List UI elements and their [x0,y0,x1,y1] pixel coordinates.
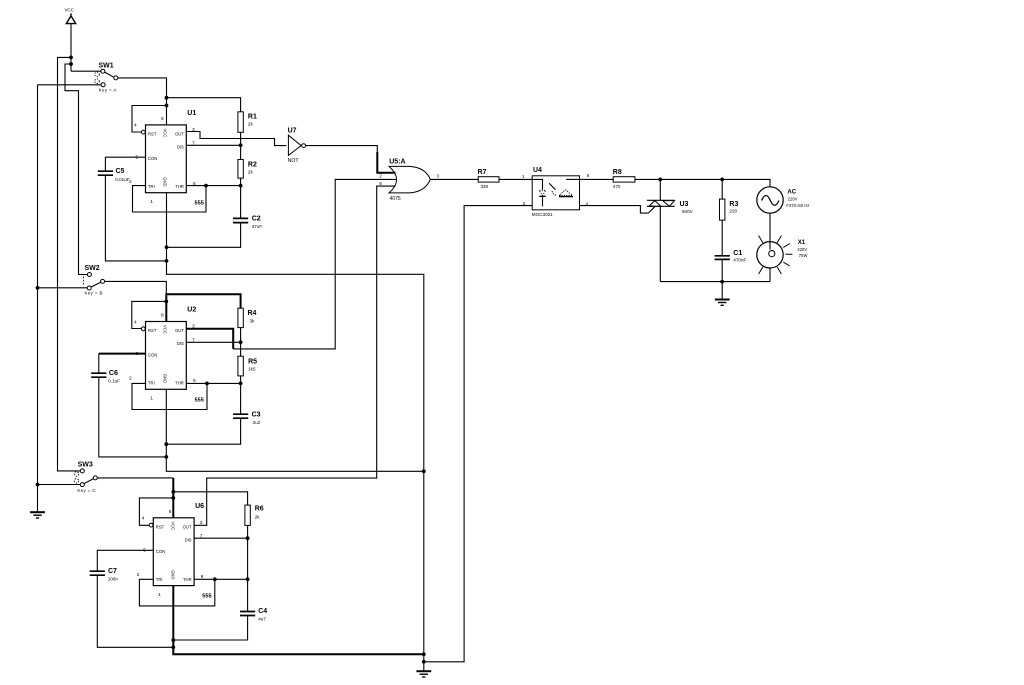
node C6 gnd junction [164,455,168,459]
label SW1 [99,62,114,69]
label SW2 [85,265,100,272]
svg-text:6: 6 [193,181,196,187]
svg-text:OUT: OUT [175,328,184,333]
node SW2 lower feed junction [36,286,40,290]
label U5:A [389,159,405,166]
svg-text:RST: RST [156,524,165,529]
node U6 TRI-THR junction [213,577,217,581]
node C2 gnd junction [165,245,169,249]
value AC 220V [788,196,798,201]
wire U2 VCC stub (bold) [165,293,167,321]
wire U2 DIS [186,341,240,343]
svg-text:U7: U7 [288,127,297,134]
svg-text:CON: CON [156,549,165,554]
svg-text:U4: U4 [533,167,542,174]
svg-text:5: 5 [143,547,146,553]
ground (main) [416,671,431,677]
ground (snubber) [715,282,730,306]
value Key=Space for SW2 [85,290,103,295]
svg-text:555: 555 [195,397,204,403]
svg-text:DIS: DIS [177,145,184,150]
value R6 2k [255,515,261,520]
svg-text:4075: 4075 [390,196,401,202]
pin 3 of U5A output [437,174,440,179]
wire ground rail (lower throws) [38,85,102,512]
node main ground junction 1 [422,652,426,656]
svg-text:U3: U3 [680,201,689,208]
label SW3 [78,462,93,469]
svg-text:3: 3 [200,520,203,526]
wire U4 pin2 to ground bus [424,206,532,662]
power VCC symbol [65,8,76,24]
svg-text:555: 555 [202,594,211,600]
svg-text:U5:A: U5:A [389,159,405,166]
node C3 gnd junction [164,442,168,446]
svg-text:U6: U6 [195,503,204,510]
svg-text:THR: THR [175,184,184,189]
wire VCC stem [70,24,72,72]
svg-text:GND: GND [163,374,168,383]
label U1 [187,110,196,117]
svg-text:2k: 2k [248,122,254,127]
node triac MT2 junction [658,178,662,182]
wire ground stub [423,654,425,671]
svg-text:2: 2 [129,179,132,185]
switch SW1 [95,69,118,87]
wire U6 GND (bold) [173,585,423,654]
svg-text:CON: CON [148,353,157,358]
resistor R2 [238,160,243,179]
wire rail to SW2 upper throw [65,64,88,275]
value AC F=50Hz [786,203,809,208]
wire C3 bottom branch [166,419,240,445]
wire U6 TRI loop [139,579,214,606]
label U6 [195,503,204,510]
wire R7 to U4 [499,178,532,180]
wire SW1 common to U1 VCC [118,78,167,125]
detector triac inside U4 [549,179,579,196]
wire C5 bottom to U1 GND [105,176,166,261]
source AC [757,187,783,213]
value C5 0.01uF [115,177,129,182]
svg-text:2k: 2k [248,169,254,174]
svg-text:2: 2 [129,376,132,382]
svg-text:TRI: TRI [156,577,163,582]
value R1 2k [248,122,254,127]
node U6 R6-rail junction [171,490,175,494]
wire lamp bottom [769,268,771,282]
svg-text:OUT: OUT [175,132,184,137]
wire R6 rail [173,492,247,505]
node U2 TRI-THR junction [205,382,209,386]
node U2-gnd to main junction [422,469,426,473]
wire R3 to C1 [721,220,723,255]
op-amp U1 (555 timer box) [129,116,196,205]
svg-text:7: 7 [200,534,203,540]
wire R4-R5-C3 vertical [240,328,242,414]
svg-text:555: 555 [195,201,204,207]
svg-text:U1: U1 [187,110,196,117]
svg-text:3k: 3k [250,318,256,323]
triac U3 [647,179,675,281]
svg-text:8: 8 [161,313,164,319]
svg-text:F370=50 Hz: F370=50 Hz [786,203,809,208]
value C2 47uF [252,224,263,229]
wire C6 top [98,354,100,373]
node U2 RST-loop junction [164,300,168,304]
wire U6 DIS [194,537,248,539]
value 4075 for U5A [390,196,401,202]
value C7 100n [108,576,119,581]
svg-text:VCC: VCC [163,128,168,137]
svg-text:C2: C2 [252,215,261,222]
node C1 ground junction [720,280,724,284]
label U4 [533,167,542,174]
svg-text:Key = C: Key = C [77,488,96,493]
capacitor C6 [91,373,106,377]
svg-text:4: 4 [134,319,137,325]
node SW3 lower feed junction [36,483,40,487]
wire U1 CON to C5 [105,157,145,170]
svg-text:2u2: 2u2 [253,420,261,425]
svg-text:47uF: 47uF [252,224,263,229]
svg-text:C6: C6 [109,370,118,377]
svg-text:2: 2 [137,572,140,578]
label R4 [248,310,257,317]
svg-text:470nF: 470nF [733,257,746,262]
svg-text:0.1uF: 0.1uF [108,378,120,383]
label X1 [798,240,806,246]
resistor R6 [245,505,250,525]
svg-text:RST: RST [148,132,157,137]
svg-text:R5: R5 [248,358,257,365]
node U1 DIS-R1R2 junction [239,143,243,147]
value R7 330 [481,184,489,189]
svg-text:8: 8 [379,181,382,186]
svg-text:GND: GND [171,570,176,579]
svg-text:1: 1 [158,592,161,598]
svg-text:CON: CON [148,156,157,161]
svg-text:TRI: TRI [148,184,155,189]
svg-text:4u7: 4u7 [258,617,266,622]
lamp X1 [757,236,793,274]
wire U4 pin4 to triac gate [580,206,656,214]
svg-text:C3: C3 [252,411,261,418]
svg-text:R1: R1 [248,114,257,121]
wire U1 DIS [186,144,240,146]
svg-text:600V: 600V [682,209,694,214]
pin 8 of U5A [379,181,382,186]
node main ground junction 2 [422,660,426,664]
resistor R8 [613,177,635,182]
node U6 RST-loop junction [171,496,175,500]
wire OR input1 (from U7) [377,152,395,173]
svg-text:R8: R8 [613,169,622,176]
svg-text:220V: 220V [788,196,798,201]
svg-text:2k: 2k [255,515,261,520]
switch SW2 [84,273,105,291]
svg-text:6: 6 [587,173,590,178]
resistor R1 [238,112,243,133]
svg-text:TRI: TRI [148,381,155,386]
svg-text:OUT: OUT [183,524,192,529]
or-gate U5A [389,166,430,193]
svg-text:Key = A: Key = A [99,87,117,92]
label U2 [187,307,196,314]
value MOC3021 for U4 [532,212,553,217]
wire OR output to R7 [430,178,478,180]
wire U2 THR [186,382,240,384]
label R5 [248,358,257,365]
wire C4 bottom branch [173,616,247,640]
svg-text:7: 7 [192,141,195,147]
wire OR input2 (from U2 OUT) [233,179,396,349]
wire SW2 common to U2 VCC rail [105,281,167,294]
capacitor C3 [233,414,248,418]
value R5 1k5 [248,367,256,372]
pin 1 of U4 [522,174,525,179]
svg-text:C1: C1 [733,250,742,257]
svg-text:VCC: VCC [65,8,74,13]
svg-text:3: 3 [192,324,195,330]
value R3 220 [729,208,737,213]
svg-text:AC: AC [787,189,796,195]
value C3 2u2 [253,420,261,425]
wire R1-R2-C2 vertical [240,132,242,217]
wire R6-C4 vertical [247,525,249,611]
wire U2 TRI loop [132,383,207,409]
value 555 for U6 [202,594,211,600]
svg-text:R4: R4 [248,310,257,317]
node U6 DIS junction [246,536,250,540]
node U1 THR-R2 junction [239,184,243,188]
ground (left rail) [30,512,45,518]
value X1 75W [799,253,808,258]
inverter U7 [288,135,305,155]
svg-text:C4: C4 [258,608,267,615]
pin 2 of U5A [379,174,382,179]
wire U1 R1 rail [167,98,241,112]
capacitor C4 [240,612,255,616]
node U2 DIS junction [239,340,243,344]
wire C7 bottom to U6 GND [97,576,173,647]
wire U2 GND net [166,389,424,471]
value Key=A for SW1 [99,87,117,92]
label C3 [252,411,261,418]
node C4 gnd junction [171,638,175,642]
wire lamp bottom bus [660,281,770,283]
svg-text:100n: 100n [108,576,119,581]
node U1 TRI-THR junction [204,184,208,188]
svg-text:SW1: SW1 [99,62,114,69]
svg-text:1: 1 [150,199,153,205]
svg-text:R3: R3 [729,201,738,208]
svg-text:0.01uF: 0.01uF [115,177,129,182]
wire SW1 feed [71,70,101,72]
wire U6 CON to C7 [97,550,153,570]
wire U1 GND net [167,193,424,655]
wire U2 VCC rail (bold) [166,294,240,308]
label R3 [729,201,738,208]
wire R8 to AC top rail [635,179,770,186]
wire U2 CON bold [99,353,146,355]
wire U6 THR [194,578,248,580]
value C1 470nF [733,257,746,262]
resistor R7 [478,177,499,182]
svg-text:SW3: SW3 [78,462,93,469]
value R4 3k [250,318,256,323]
svg-text:THR: THR [175,381,184,386]
resistor R3 [720,199,725,220]
wire SW3 common to U6 VCC [97,477,173,479]
svg-text:GND: GND [163,177,168,186]
value R2 2k [248,169,254,174]
wire U4 pin6 to R8 [580,178,614,180]
svg-text:4: 4 [134,123,137,129]
label C7 [108,568,117,575]
wire OR input3 (from U6 OUT) [194,186,395,525]
svg-text:8: 8 [169,509,172,515]
optocoupler U4 box [532,176,579,210]
svg-text:7: 7 [192,337,195,343]
capacitor C1 [715,256,730,260]
label C1 [733,250,742,257]
node C7 gnd junction [171,645,175,649]
wire U1 RST loop [132,106,167,133]
svg-text:R6: R6 [255,506,264,513]
op-amp U6 (555 timer box) [137,509,204,598]
value NOT for U7 [288,158,300,164]
resistor R5 [238,356,243,376]
label R2 [248,162,257,169]
svg-text:RST: RST [148,328,157,333]
wire R3 top [721,179,723,199]
label R1 [248,114,257,121]
node VCC-railB junction [69,62,73,66]
svg-text:8: 8 [161,116,164,122]
value Key=C for SW3 [77,488,96,493]
svg-text:220: 220 [729,208,737,213]
wire U2 OUT (bold) [186,329,233,349]
capacitor C5 [98,171,113,175]
wire SW2 lower feed [38,287,88,289]
node R3 top junction [720,178,724,182]
label AC [787,189,796,195]
svg-text:R2: R2 [248,162,257,169]
svg-text:SW2: SW2 [85,265,100,272]
svg-text:2: 2 [379,174,382,179]
svg-text:4: 4 [142,516,145,522]
wire C2 bottom branch [167,223,241,247]
node U2 THR-R5 junction [239,382,243,386]
pin 6 of U4 [587,173,590,178]
value C6 0.1uF [108,378,120,383]
svg-text:U2: U2 [187,307,196,314]
wire U1 THR [186,185,240,187]
wire U1 OUT to U7 [186,132,286,146]
svg-text:DIS: DIS [185,537,192,542]
svg-text:MOC3021: MOC3021 [532,212,553,217]
svg-text:330: 330 [481,184,489,189]
svg-text:470: 470 [613,184,621,189]
wire AC to lamp [769,213,771,241]
svg-text:3: 3 [437,174,440,179]
wire U6 RST loop [139,498,173,525]
switch SW3 [74,469,97,487]
svg-text:3: 3 [192,127,195,133]
wire U1 TRI loop [133,186,207,212]
value X1 220V [797,247,807,252]
label C6 [109,370,118,377]
node VCC-railA junction [69,56,73,60]
svg-text:NOT: NOT [288,158,300,164]
wire SW3 lower feed [38,484,81,486]
node C5 gnd junction [165,259,169,263]
svg-text:X1: X1 [798,240,806,246]
capacitor C7 [90,571,105,575]
value 555 for U2 [195,397,204,403]
wire C6 bottom to U2 GND [99,378,167,457]
diode LED inside U4 [532,179,546,206]
node U1 RST-loop junction [165,104,169,108]
value U3 600V [682,209,694,214]
label R7 [478,169,487,176]
label R6 [255,506,264,513]
pin 4 of U4 [586,201,589,206]
svg-text:R7: R7 [478,169,487,176]
svg-text:220V: 220V [797,247,807,252]
label C5 [116,168,125,175]
capacitor C2 [233,218,248,222]
value R8 470 [613,184,621,189]
svg-text:C7: C7 [108,568,117,575]
wire C1 bottom [721,260,723,282]
op-amp U2 (555 timer box) [129,313,196,402]
wire rail to SW3 upper throw [58,57,81,471]
svg-text:Key = B: Key = B [85,290,103,295]
svg-text:VCC: VCC [163,325,168,334]
pin 2 of U4 [523,201,526,206]
node U6 THR junction [246,577,250,581]
svg-text:VCC: VCC [171,521,176,530]
wire U2 RST loop [132,301,167,328]
label C2 [252,215,261,222]
svg-text:5: 5 [136,351,139,357]
svg-text:1: 1 [150,396,153,402]
resistor R4 [238,308,243,327]
svg-text:5: 5 [136,155,139,161]
label U7 [288,127,297,134]
value C4 4u7 [258,617,266,622]
value 555 for U1 [195,201,204,207]
wire U6 VCC (bold) [172,478,174,518]
svg-text:C5: C5 [116,168,125,175]
svg-text:75W: 75W [799,253,808,258]
svg-text:THR: THR [183,577,192,582]
svg-text:1k5: 1k5 [248,367,256,372]
label R8 [613,169,622,176]
label U3 [680,201,689,208]
node U1 R-rail junction [165,96,169,100]
svg-text:1: 1 [522,174,525,179]
svg-text:6: 6 [201,574,204,580]
wire U7 output [306,146,378,152]
svg-text:DIS: DIS [177,341,184,346]
label C4 [258,608,267,615]
svg-text:6: 6 [193,378,196,384]
